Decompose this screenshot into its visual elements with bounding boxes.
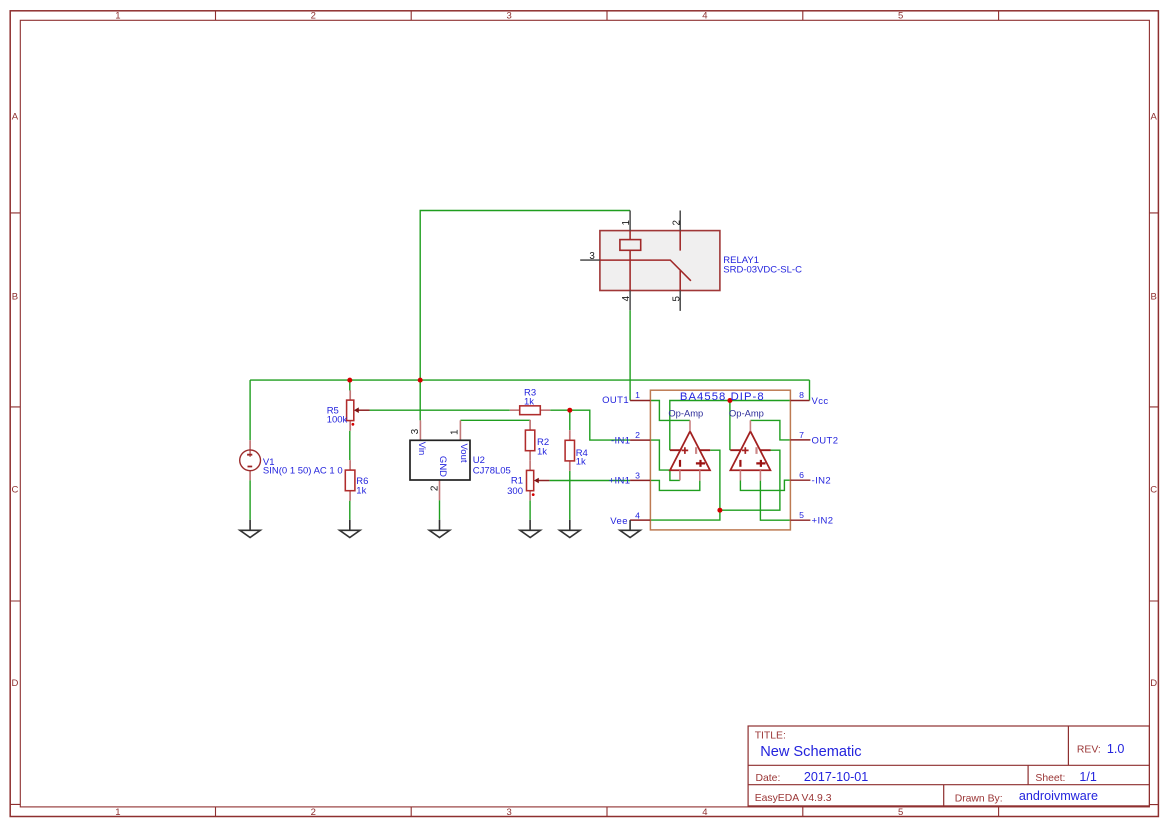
resistor R4 <box>565 430 574 471</box>
SCHEMATIC <box>240 211 839 538</box>
resistor R6 <box>345 460 355 501</box>
relay pin 1 <box>629 211 631 231</box>
wire IC internal opamp1 V- down to Vee node <box>710 450 720 510</box>
wire junction down to R4 top <box>569 410 571 430</box>
svg-text:1: 1 <box>635 390 640 400</box>
wire IC internal pin2 to opamp1 inverting input <box>650 440 680 480</box>
wire R5 wiper to R3 left <box>370 409 510 411</box>
relay pin 3 <box>580 259 600 261</box>
svg-text:7: 7 <box>799 430 804 440</box>
wire IC internal pin4 Vee <box>650 510 720 520</box>
ground at U1 Vee pin <box>620 520 640 537</box>
voltage source V1 <box>240 440 261 480</box>
svg-text:1: 1 <box>115 11 120 22</box>
svg-text:R1: R1 <box>511 475 523 486</box>
svg-text:TITLE:: TITLE: <box>755 731 786 742</box>
svg-text:3: 3 <box>506 807 511 818</box>
wire R3 right to junction node <box>550 409 570 411</box>
svg-text:1k: 1k <box>537 446 547 457</box>
svg-text:5: 5 <box>898 11 903 22</box>
svg-text:Vin: Vin <box>416 442 427 456</box>
svg-text:1k: 1k <box>356 485 366 496</box>
svg-text:GND: GND <box>437 456 448 477</box>
svg-text:Vcc: Vcc <box>812 396 829 407</box>
svg-text:EasyEDA V4.9.3: EasyEDA V4.9.3 <box>755 793 832 804</box>
U1 pin 4 VEE <box>630 519 650 521</box>
wire V1 minus to ground <box>249 480 251 520</box>
junction IC internal Vcc <box>727 398 732 403</box>
U1 pin 3 +IN1 <box>630 479 650 481</box>
wire rail to relay coil pin 1 <box>420 211 630 381</box>
svg-text:-IN2: -IN2 <box>812 476 832 487</box>
wire R1 bottom to ground <box>529 500 531 519</box>
svg-text:+IN1: +IN1 <box>609 476 631 487</box>
relay RELAY1 body <box>600 231 720 291</box>
svg-text:1: 1 <box>450 429 461 435</box>
svg-text:C: C <box>11 484 18 495</box>
ground under V1 <box>240 520 260 538</box>
potentiometer R1 <box>527 461 550 501</box>
svg-text:1: 1 <box>115 807 120 818</box>
wire R6 bottom to ground <box>349 501 351 520</box>
op-amp B triangle <box>730 420 770 480</box>
wire IC internal pin3 to opamp1 non-inverting input <box>650 480 699 490</box>
svg-text:B: B <box>12 292 18 303</box>
wire IC internal Vcc distribution <box>670 401 791 451</box>
U1 pin 6 -IN2 <box>790 479 810 481</box>
wire V1 plus to rail <box>249 380 251 440</box>
TITLEBLOCK <box>748 726 1149 806</box>
svg-text:-IN1: -IN1 <box>611 435 631 446</box>
svg-text:4: 4 <box>621 295 632 301</box>
U1 pin 1 OUT1 <box>630 400 650 402</box>
svg-text:REV:: REV: <box>1077 745 1101 756</box>
relay pin 5 <box>679 291 681 311</box>
wire IC internal opamp2 non-inverting input to pin 5 +IN2 <box>760 481 790 521</box>
svg-text:C: C <box>1150 484 1157 495</box>
resistor R3 <box>510 406 550 415</box>
wire IC internal opamp2 output to pin 7 OUT2 <box>750 420 790 440</box>
svg-text:BA4558 DIP-8: BA4558 DIP-8 <box>680 391 765 403</box>
wire U2 Vout to R2 top <box>460 419 530 421</box>
svg-text:1: 1 <box>621 220 632 225</box>
svg-text:D: D <box>1150 678 1157 689</box>
U1 pin 7 OUT2 <box>790 439 810 441</box>
svg-text:4: 4 <box>635 511 640 521</box>
junction rail/relay-U2 <box>418 378 423 383</box>
wire IC internal Vee node to opamp2 V- <box>720 450 780 510</box>
svg-text:4: 4 <box>702 807 707 818</box>
relay coil <box>620 240 641 251</box>
U1 pin 5 +IN2 <box>790 519 810 521</box>
ground under R6 <box>340 520 360 538</box>
wire U2 GND to ground <box>439 500 441 520</box>
wire rail to U2 Vin <box>419 380 421 420</box>
svg-text:Op-Amp: Op-Amp <box>668 408 703 419</box>
svg-text:1/1: 1/1 <box>1079 770 1097 784</box>
svg-text:2017-10-01: 2017-10-01 <box>804 770 868 784</box>
svg-text:Drawn By:: Drawn By: <box>955 793 1003 804</box>
svg-text:Vout: Vout <box>458 443 469 462</box>
U1 pin 2 -IN1 <box>630 439 650 441</box>
wire R4 bottom to ground <box>569 471 571 520</box>
svg-text:2: 2 <box>671 220 682 225</box>
svg-text:3: 3 <box>635 470 640 480</box>
svg-text:5: 5 <box>671 295 682 301</box>
wire R5 bottom to R6 top <box>349 431 351 460</box>
junction IC internal Vee <box>717 508 722 513</box>
svg-text:Op-Amp: Op-Amp <box>729 408 764 419</box>
svg-text:New Schematic: New Schematic <box>760 744 861 760</box>
wire IC internal opamp2 inverting input to pin 6 -IN2 <box>740 480 790 490</box>
svg-text:5: 5 <box>799 510 804 520</box>
wire junction to IC pin 2 -IN1 <box>570 410 630 440</box>
svg-text:1k: 1k <box>576 457 586 468</box>
svg-text:2: 2 <box>311 807 316 818</box>
wire R1 wiper to IC pin 3 +IN1 <box>549 480 630 482</box>
svg-text:A: A <box>12 111 19 122</box>
svg-text:1k: 1k <box>524 397 534 408</box>
svg-text:3: 3 <box>410 428 421 434</box>
wire IC internal Vcc to opamp2 V+ <box>729 401 731 451</box>
ground under U2 <box>429 520 449 538</box>
svg-text:A: A <box>1151 111 1158 122</box>
svg-text:CJ78L05: CJ78L05 <box>473 465 511 476</box>
wire relay pin 4 to IC pin 1 OUT1 <box>629 310 631 400</box>
wire IC internal pin1 to opamp1 output <box>650 401 690 421</box>
potentiometer R5 <box>347 390 370 430</box>
svg-text:3: 3 <box>506 11 511 22</box>
relay pin 2 <box>679 211 681 231</box>
svg-text:6: 6 <box>799 470 804 480</box>
junction R3/R4/-IN1 node <box>567 408 572 413</box>
svg-text:+IN2: +IN2 <box>812 516 834 527</box>
svg-text:5: 5 <box>898 807 903 818</box>
svg-text:1.0: 1.0 <box>1107 742 1125 756</box>
svg-text:androivmware: androivmware <box>1019 789 1098 803</box>
svg-text:Date:: Date: <box>756 773 781 784</box>
svg-text:OUT2: OUT2 <box>812 435 839 446</box>
svg-text:300: 300 <box>507 486 523 497</box>
ground under R1 <box>520 520 540 538</box>
svg-text:100k: 100k <box>327 415 348 426</box>
ground under R4 <box>560 520 580 538</box>
wire rail down to IC pin 8 Vcc <box>809 380 811 400</box>
svg-text:SRD-03VDC-SL-C: SRD-03VDC-SL-C <box>723 264 802 275</box>
svg-text:D: D <box>11 678 18 689</box>
relay pin 4 <box>629 291 631 311</box>
svg-text:Sheet:: Sheet: <box>1035 773 1065 784</box>
wire supply rail net VCC <box>250 379 809 381</box>
svg-text:B: B <box>1151 292 1157 303</box>
svg-text:2: 2 <box>635 430 640 440</box>
wire rail to R5 top <box>349 380 351 390</box>
svg-text:8: 8 <box>799 390 804 400</box>
svg-text:Vee: Vee <box>610 516 628 527</box>
svg-text:4: 4 <box>702 11 707 22</box>
junction rail/R5 <box>347 378 352 383</box>
svg-text:3: 3 <box>589 251 595 262</box>
svg-text:2: 2 <box>311 11 316 22</box>
resistor R2 <box>525 420 534 461</box>
U1 pin 8 VCC <box>790 400 809 402</box>
svg-text:OUT1: OUT1 <box>602 395 629 406</box>
op-amp A triangle <box>670 420 710 480</box>
svg-text:SIN(0 1 50) AC 1 0: SIN(0 1 50) AC 1 0 <box>263 466 343 477</box>
svg-text:2: 2 <box>429 485 440 491</box>
op-amp U1 BA4558 body <box>650 390 790 530</box>
regulator U2 body <box>410 420 470 500</box>
